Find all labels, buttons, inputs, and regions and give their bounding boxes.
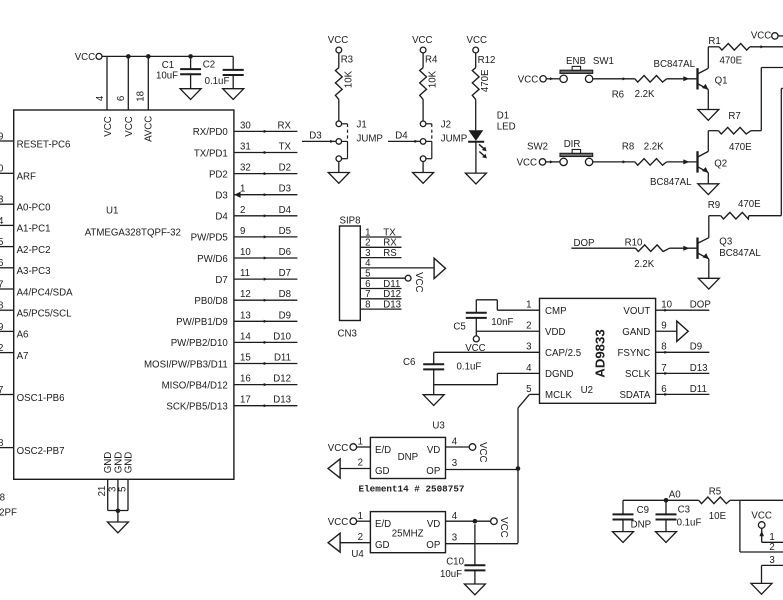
svg-text:D7: D7: [215, 275, 227, 286]
svg-text:R3: R3: [341, 54, 353, 65]
svg-text:OP: OP: [426, 466, 440, 477]
svg-text:D10: D10: [273, 331, 291, 342]
svg-text:10: 10: [240, 247, 251, 258]
svg-text:1: 1: [240, 184, 245, 195]
svg-text:Q2: Q2: [714, 158, 727, 169]
svg-text:25MHZ: 25MHZ: [392, 529, 424, 540]
svg-text:R1: R1: [708, 36, 720, 47]
svg-text:DIR: DIR: [564, 139, 581, 150]
svg-text:470E: 470E: [720, 56, 743, 67]
svg-text:PW/PB2/D10: PW/PB2/D10: [171, 338, 229, 349]
svg-text:VD: VD: [427, 519, 440, 530]
svg-text:J2: J2: [441, 120, 451, 131]
svg-text:U3: U3: [432, 421, 444, 432]
svg-text:470E: 470E: [738, 199, 761, 210]
svg-text:E/D: E/D: [375, 519, 391, 530]
svg-text:PW/PD5: PW/PD5: [191, 233, 228, 244]
svg-text:R9: R9: [708, 200, 720, 211]
svg-text:MOSI/PW/PB3/D11: MOSI/PW/PB3/D11: [144, 359, 228, 370]
svg-text:U2: U2: [581, 385, 593, 396]
svg-text:CAP/2.5: CAP/2.5: [545, 348, 581, 359]
svg-text:DNP: DNP: [398, 452, 418, 463]
svg-text:8: 8: [0, 301, 3, 312]
svg-text:10E: 10E: [709, 511, 727, 522]
svg-text:VCC: VCC: [103, 116, 114, 136]
svg-text:12: 12: [240, 289, 251, 300]
svg-text:ENB: ENB: [566, 56, 586, 67]
svg-text:D5: D5: [279, 226, 291, 237]
svg-text:D1: D1: [497, 110, 509, 121]
svg-text:ATMEGA328TQPF-32: ATMEGA328TQPF-32: [85, 227, 181, 238]
svg-text:VCC: VCC: [328, 35, 348, 46]
svg-text:AVCC: AVCC: [143, 116, 154, 142]
svg-text:VCC: VCC: [751, 510, 771, 521]
svg-text:D3: D3: [215, 191, 227, 202]
svg-text:10uF: 10uF: [440, 569, 462, 580]
svg-text:OSC2-PB7: OSC2-PB7: [17, 446, 65, 457]
svg-text:13: 13: [240, 310, 251, 321]
svg-text:3: 3: [0, 195, 3, 206]
svg-text:JUMP: JUMP: [357, 134, 383, 145]
svg-text:BC847AL: BC847AL: [650, 177, 692, 188]
svg-text:SDATA: SDATA: [619, 390, 650, 401]
svg-text:D9: D9: [690, 342, 702, 353]
svg-text:DGND: DGND: [545, 369, 574, 380]
svg-text:1: 1: [526, 300, 531, 311]
svg-text:C5: C5: [453, 322, 465, 333]
svg-text:8: 8: [365, 299, 370, 310]
svg-text:2: 2: [358, 458, 363, 469]
svg-text:D13: D13: [690, 363, 708, 374]
svg-text:10K: 10K: [428, 70, 439, 88]
svg-text:BC847AL: BC847AL: [719, 248, 761, 259]
svg-text:10nF: 10nF: [491, 317, 513, 328]
svg-text:A0: A0: [669, 489, 681, 500]
svg-text:1: 1: [358, 437, 363, 448]
svg-text:2.2K: 2.2K: [635, 89, 655, 100]
svg-text:D3: D3: [309, 131, 321, 142]
svg-text:2: 2: [769, 542, 774, 553]
svg-text:30: 30: [240, 120, 251, 131]
svg-text:2: 2: [526, 321, 531, 332]
svg-text:A7: A7: [17, 351, 29, 362]
svg-text:10K: 10K: [343, 70, 354, 88]
svg-text:4: 4: [452, 511, 458, 522]
svg-text:R7: R7: [728, 111, 740, 122]
svg-text:VCC: VCC: [75, 52, 95, 63]
svg-text:A6: A6: [17, 330, 29, 341]
svg-text:2.2K: 2.2K: [634, 259, 654, 270]
svg-text:R12: R12: [478, 55, 496, 66]
svg-text:4: 4: [95, 95, 106, 101]
svg-text:R4: R4: [425, 54, 438, 65]
svg-text:GD: GD: [375, 466, 390, 477]
svg-text:D3: D3: [279, 184, 291, 195]
svg-text:7: 7: [0, 279, 3, 290]
svg-text:0.1uF: 0.1uF: [677, 518, 702, 529]
svg-text:D9: D9: [279, 310, 291, 321]
svg-text:U1: U1: [106, 206, 118, 217]
svg-text:BC847AL: BC847AL: [654, 59, 696, 70]
svg-text:16: 16: [240, 374, 251, 385]
svg-text:C6: C6: [403, 357, 415, 368]
svg-text:470E: 470E: [480, 69, 491, 92]
svg-text:PD2: PD2: [209, 169, 228, 180]
svg-text:VCC: VCC: [477, 442, 488, 462]
svg-text:SW1: SW1: [593, 56, 614, 67]
svg-text:C9: C9: [637, 505, 649, 516]
svg-text:TX: TX: [279, 142, 292, 153]
svg-text:10: 10: [661, 300, 672, 311]
svg-text:R8: R8: [622, 141, 634, 152]
svg-text:VCC: VCC: [751, 31, 771, 42]
svg-text:2.2K: 2.2K: [644, 141, 664, 152]
svg-text:R6: R6: [612, 90, 624, 101]
svg-text:0.1uF: 0.1uF: [457, 362, 482, 373]
svg-text:3: 3: [526, 342, 531, 353]
svg-text:31: 31: [240, 142, 251, 153]
svg-text:VCC: VCC: [328, 443, 348, 454]
svg-text:D13: D13: [383, 299, 401, 310]
svg-text:11: 11: [240, 268, 250, 279]
svg-text:14: 14: [240, 331, 251, 342]
svg-text:7: 7: [0, 385, 3, 396]
svg-text:D4: D4: [215, 212, 228, 223]
svg-text:A5/PC5/SCL: A5/PC5/SCL: [17, 309, 73, 320]
svg-text:9: 9: [0, 131, 3, 142]
svg-text:VDD: VDD: [545, 327, 565, 338]
svg-text:C8: C8: [0, 493, 5, 504]
svg-text:D4: D4: [279, 205, 292, 216]
svg-text:VOUT: VOUT: [623, 306, 650, 317]
svg-text:4: 4: [452, 437, 458, 448]
svg-text:6: 6: [116, 96, 127, 101]
svg-text:MCLK: MCLK: [545, 390, 572, 401]
svg-text:VCC: VCC: [517, 158, 537, 169]
svg-text:C10: C10: [446, 557, 464, 568]
svg-text:1: 1: [769, 532, 774, 543]
svg-text:8: 8: [0, 438, 3, 449]
svg-text:PB0/D8: PB0/D8: [194, 296, 227, 307]
svg-text:AD9833: AD9833: [592, 329, 607, 377]
svg-text:VCC: VCC: [412, 35, 432, 46]
svg-text:D11: D11: [690, 384, 707, 395]
svg-text:A3-PC3: A3-PC3: [17, 266, 51, 277]
svg-text:D8: D8: [279, 289, 291, 300]
svg-text:6: 6: [661, 384, 666, 395]
svg-text:SIP8: SIP8: [340, 216, 361, 227]
svg-text:TX/PD1: TX/PD1: [194, 148, 228, 159]
svg-text:RESET-PC6: RESET-PC6: [17, 139, 71, 150]
svg-text:15: 15: [240, 353, 251, 364]
svg-text:ARF: ARF: [17, 172, 36, 183]
svg-text:DOP: DOP: [690, 300, 711, 311]
svg-text:R5: R5: [709, 487, 721, 498]
svg-text:9: 9: [240, 226, 245, 237]
svg-text:VCC: VCC: [328, 517, 348, 528]
svg-text:Q3: Q3: [719, 237, 732, 248]
svg-text:1: 1: [358, 511, 363, 522]
svg-text:5: 5: [526, 384, 531, 395]
svg-text:FSYNC: FSYNC: [617, 348, 650, 359]
svg-text:SW2: SW2: [527, 141, 548, 152]
svg-text:VCC: VCC: [518, 75, 538, 86]
svg-text:D7: D7: [279, 268, 291, 279]
svg-text:470E: 470E: [729, 142, 752, 153]
svg-text:OSC1-PB6: OSC1-PB6: [17, 393, 65, 404]
svg-text:SCK/PB5/D13: SCK/PB5/D13: [166, 402, 227, 413]
svg-text:JUMP: JUMP: [441, 134, 467, 145]
svg-text:0.1uF: 0.1uF: [205, 76, 230, 87]
svg-text:A0-PC0: A0-PC0: [17, 203, 52, 214]
svg-text:RX/PD0: RX/PD0: [193, 127, 229, 138]
svg-text:D11: D11: [274, 353, 291, 364]
svg-text:E/D: E/D: [375, 445, 391, 456]
svg-text:Q1: Q1: [715, 76, 728, 87]
svg-text:LED: LED: [497, 122, 516, 133]
svg-text:17: 17: [240, 395, 251, 406]
svg-text:10uF: 10uF: [156, 71, 178, 82]
svg-text:D6: D6: [279, 247, 291, 258]
svg-text:MISO/PB4/D12: MISO/PB4/D12: [162, 380, 228, 391]
svg-text:9: 9: [661, 321, 666, 332]
svg-text:22PF: 22PF: [0, 508, 17, 519]
svg-text:VCC: VCC: [124, 116, 135, 136]
svg-text:3: 3: [452, 532, 457, 543]
svg-text:7: 7: [661, 363, 666, 374]
svg-text:C3: C3: [678, 505, 690, 516]
svg-text:6: 6: [0, 258, 3, 269]
svg-text:PW/PB1/D9: PW/PB1/D9: [176, 317, 228, 328]
svg-text:J1: J1: [357, 120, 367, 131]
svg-text:C1: C1: [162, 60, 174, 71]
svg-text:3: 3: [452, 458, 457, 469]
svg-text:DNP: DNP: [631, 520, 651, 531]
svg-text:2: 2: [240, 205, 245, 216]
svg-text:OP: OP: [426, 540, 440, 551]
svg-text:U4: U4: [351, 549, 364, 560]
svg-text:GD: GD: [375, 540, 390, 551]
svg-text:9: 9: [0, 322, 3, 333]
svg-text:CN3: CN3: [338, 329, 357, 340]
svg-text:VCC: VCC: [467, 35, 487, 46]
svg-text:Element14 # 2508757: Element14 # 2508757: [359, 483, 465, 494]
svg-text:C2: C2: [203, 60, 215, 71]
svg-text:A4/PC4/SDA: A4/PC4/SDA: [17, 287, 74, 298]
svg-text:A1-PC1: A1-PC1: [17, 224, 51, 235]
svg-text:R10: R10: [625, 238, 643, 249]
svg-text:RX: RX: [278, 120, 292, 131]
svg-text:PW/D6: PW/D6: [197, 254, 228, 265]
svg-text:VD: VD: [427, 445, 440, 456]
svg-text:4: 4: [526, 363, 532, 374]
svg-text:GAND: GAND: [622, 327, 650, 338]
svg-text:D13: D13: [273, 395, 291, 406]
svg-text:2: 2: [358, 532, 363, 543]
svg-text:GND: GND: [123, 452, 134, 474]
svg-text:SCLK: SCLK: [625, 369, 651, 380]
svg-text:D12: D12: [273, 374, 291, 385]
svg-text:VCC: VCC: [413, 272, 424, 292]
svg-text:32: 32: [240, 163, 251, 174]
svg-text:18: 18: [135, 91, 146, 102]
svg-text:RS: RS: [383, 248, 397, 259]
svg-text:8: 8: [661, 342, 666, 353]
svg-text:3: 3: [769, 555, 774, 566]
svg-text:D2: D2: [279, 163, 291, 174]
svg-text:2: 2: [0, 343, 3, 354]
svg-text:VCC: VCC: [498, 517, 509, 537]
svg-text:CMP: CMP: [545, 306, 567, 317]
svg-text:5: 5: [118, 487, 129, 492]
svg-text:DOP: DOP: [574, 238, 595, 249]
svg-text:D4: D4: [395, 131, 408, 142]
svg-text:A2-PC2: A2-PC2: [17, 245, 51, 256]
svg-text:5: 5: [0, 237, 3, 248]
